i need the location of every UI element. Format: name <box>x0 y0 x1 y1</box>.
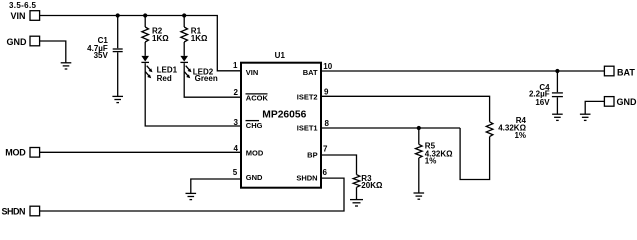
LED LED2 Green <box>180 56 217 83</box>
svg-text:1KΩ: 1KΩ <box>191 34 208 43</box>
wire R5 to ground <box>418 158 420 193</box>
ground below right GND port <box>580 114 591 120</box>
svg-text:MOD: MOD <box>5 147 26 157</box>
svg-text:Red: Red <box>157 74 172 83</box>
wire R4 bottom to ISET1 line <box>460 128 490 180</box>
svg-text:1KΩ: 1KΩ <box>152 34 169 43</box>
svg-text:GND: GND <box>246 173 263 182</box>
wire R1 stem from rail <box>183 16 185 28</box>
wire SHDN port to pin 6 <box>40 178 344 211</box>
resistor R4 <box>486 116 526 140</box>
svg-text:1%: 1% <box>514 131 526 140</box>
resistor R5 <box>415 142 453 166</box>
op-amp U1 chip body MP26056 <box>241 63 321 188</box>
wire GND port to ground <box>40 41 66 63</box>
svg-text:VIN: VIN <box>10 11 25 21</box>
node junction R2 <box>143 13 147 17</box>
node junction R1 <box>182 13 186 17</box>
node junction C1 <box>116 13 120 17</box>
svg-text:U1: U1 <box>275 51 286 60</box>
svg-text:SHDN: SHDN <box>296 174 317 183</box>
svg-text:BAT: BAT <box>303 68 318 77</box>
svg-text:5: 5 <box>233 168 238 177</box>
svg-text:2: 2 <box>234 88 239 97</box>
svg-text:1%: 1% <box>425 157 437 166</box>
svg-text:ISET1: ISET1 <box>297 124 318 133</box>
LED LED1 Red <box>141 56 177 83</box>
port BAT right <box>604 66 614 76</box>
wire R3 to ground <box>356 187 358 199</box>
port GND right <box>604 97 614 107</box>
svg-text:SHDN: SHDN <box>1 206 25 216</box>
svg-text:MOD: MOD <box>246 148 264 157</box>
wire C1 branch <box>117 16 119 49</box>
port GND left <box>30 36 40 46</box>
svg-text:3: 3 <box>234 118 239 127</box>
wire pin 5 to ground <box>191 179 241 193</box>
svg-text:CHG: CHG <box>246 121 263 130</box>
wire pin 10 BAT to port <box>321 70 604 72</box>
wire C4 branch <box>556 71 558 92</box>
svg-text:9: 9 <box>324 88 329 97</box>
port MOD <box>30 148 40 158</box>
svg-text:35V: 35V <box>94 51 109 60</box>
wire pin 9 ISET2 to R4 <box>321 96 490 122</box>
svg-text:10: 10 <box>323 62 332 71</box>
ground below R5 <box>414 193 425 199</box>
svg-text:BAT: BAT <box>617 67 635 77</box>
wire R2 stem from rail <box>144 16 146 28</box>
wire R5 stem <box>418 128 420 144</box>
port VIN <box>30 11 40 21</box>
wire GND right port to ground <box>585 101 604 114</box>
ground below pin 5 <box>186 193 197 199</box>
svg-text:ISET2: ISET2 <box>297 93 318 102</box>
svg-text:ACOK: ACOK <box>246 93 269 102</box>
svg-text:6: 6 <box>323 168 328 177</box>
wire LED2 to pin 2 <box>184 63 241 97</box>
resistor R1 <box>181 27 208 44</box>
svg-text:1: 1 <box>233 61 238 70</box>
wire C1 to ground <box>117 52 119 96</box>
svg-text:8: 8 <box>325 119 330 128</box>
svg-text:16V: 16V <box>535 98 550 107</box>
svg-text:VIN: VIN <box>246 68 259 77</box>
svg-text:3.5-6.5: 3.5-6.5 <box>9 1 37 10</box>
svg-text:20KΩ: 20KΩ <box>361 181 383 190</box>
svg-text:7: 7 <box>323 145 328 154</box>
resistor R3 <box>353 174 383 190</box>
wire MOD port to pin 4 <box>40 151 241 153</box>
capacitor C1 <box>87 36 123 60</box>
svg-text:GND: GND <box>617 97 637 107</box>
resistor R2 <box>142 27 169 44</box>
svg-text:4: 4 <box>234 144 239 153</box>
svg-text:MP26056: MP26056 <box>262 110 306 121</box>
wire pin 7 BP to R3 <box>321 155 357 175</box>
ground below R3 <box>350 200 363 206</box>
svg-text:BP: BP <box>307 151 317 160</box>
svg-text:GND: GND <box>7 37 28 47</box>
ground below GND port <box>61 63 72 69</box>
node junction C4 <box>555 69 559 73</box>
capacitor C4 <box>529 83 563 107</box>
wire pin 8 ISET1 <box>321 127 460 129</box>
wire C4 to ground <box>556 97 558 114</box>
svg-text:Green: Green <box>195 74 218 83</box>
wire R2 to LED1 <box>144 42 146 56</box>
wire LED1 to pin 3 <box>145 63 241 126</box>
ground below C4 <box>552 114 563 120</box>
node junction R5 <box>417 126 421 130</box>
wire VIN rail to pin 1 <box>40 16 241 71</box>
ground below C1 <box>112 96 123 102</box>
port SHDN <box>30 206 40 216</box>
wire R1 to LED2 <box>183 42 185 56</box>
